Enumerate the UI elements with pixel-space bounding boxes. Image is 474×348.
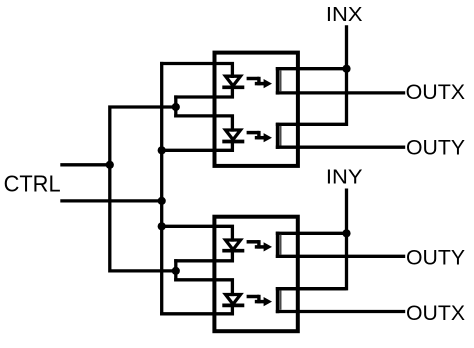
wire LED2 cathode <box>160 140 232 150</box>
LED D3 <box>222 240 244 251</box>
wire LED4 anode <box>174 280 232 296</box>
wire node M jog <box>174 95 177 117</box>
junction INY bracket <box>342 229 350 237</box>
opto-relay U1 box <box>215 53 298 166</box>
output switch S1 bracket <box>276 67 347 95</box>
junction LED2 cathode bus <box>158 146 166 154</box>
svg-text:OUTX: OUTX <box>406 302 465 325</box>
svg-text:OUTX: OUTX <box>406 81 466 104</box>
wire OUTY top <box>276 146 405 149</box>
arrow D2 emission <box>247 131 272 142</box>
svg-text:INX: INX <box>326 3 363 26</box>
junction CTRL lower bus <box>158 197 166 205</box>
wire INY vertical <box>276 189 347 289</box>
LED D4 <box>222 295 244 306</box>
LED D1 <box>222 76 244 87</box>
svg-text:CTRL: CTRL <box>4 171 61 197</box>
wire bus V2 <box>160 62 163 316</box>
junction CTRL upper <box>106 161 114 169</box>
wire OUTY bottom <box>276 255 405 258</box>
output switch S4 bracket <box>276 287 347 313</box>
wire vertical V1 with node M arms <box>110 107 176 271</box>
arrow D1 emission <box>247 77 272 88</box>
wire node M2 jog <box>174 259 177 281</box>
wire OUTX top <box>276 91 405 94</box>
wire LED3 cathode <box>174 249 232 261</box>
wire LED1 cathode <box>174 86 232 97</box>
wire CTRL upper stub <box>60 163 110 166</box>
junction node M2 <box>172 267 180 275</box>
wire LED2 anode <box>174 116 232 132</box>
arrow D4 emission <box>247 295 272 306</box>
svg-text:OUTY: OUTY <box>406 247 465 270</box>
svg-text:INY: INY <box>326 166 363 189</box>
svg-text:OUTY: OUTY <box>406 136 465 159</box>
junction INX bracket <box>342 65 350 73</box>
wire LED1 anode <box>160 64 232 79</box>
opto-relay U2 box <box>214 217 297 332</box>
LED D2 <box>222 130 244 142</box>
wire INX vertical <box>276 25 347 124</box>
junction LED3 anode bus <box>158 222 166 230</box>
output switch S3 bracket <box>276 232 347 258</box>
wire CTRL lower stub <box>60 199 161 202</box>
wire OUTX bottom <box>276 310 405 313</box>
output switch S2 bracket <box>276 123 347 149</box>
wire LED4 cathode <box>160 304 232 314</box>
arrow D3 emission <box>247 240 272 251</box>
wire LED3 anode <box>160 226 232 241</box>
junction node M <box>172 103 180 111</box>
